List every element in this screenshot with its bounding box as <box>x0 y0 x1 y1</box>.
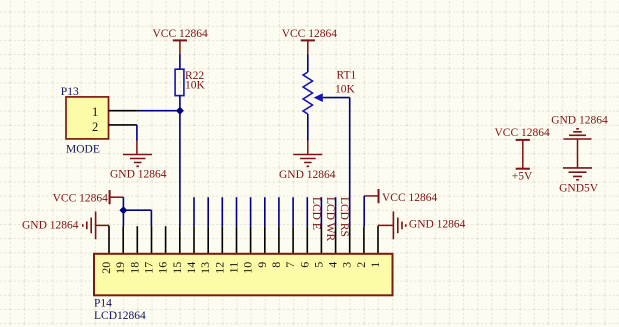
svg-text:8: 8 <box>269 262 283 268</box>
svg-text:GND5V: GND5V <box>559 183 599 195</box>
junction B <box>119 206 127 214</box>
svg-text:MODE: MODE <box>66 143 100 155</box>
wire VCC to RT1 <box>307 54 309 72</box>
svg-text:VCC 12864: VCC 12864 <box>282 28 338 40</box>
wire RT1 bottom <box>307 114 309 141</box>
wire down to pin2 P14 <box>363 196 365 226</box>
svg-text:10K: 10K <box>185 80 206 92</box>
svg-text:LCD12864: LCD12864 <box>94 310 146 322</box>
power bar +5V (bottom) <box>516 168 530 170</box>
svg-text:P14: P14 <box>94 297 112 309</box>
wire down to pin3 P14 <box>349 98 351 227</box>
svg-text:15: 15 <box>170 262 184 274</box>
resistor R22 body <box>175 69 184 95</box>
ground symbol rotated (right P14) <box>393 212 405 240</box>
wire junction B right <box>123 209 151 211</box>
power bar VCC (+5V tie top) <box>516 139 530 141</box>
svg-text:10: 10 <box>241 262 255 274</box>
power bar VCC (right P14) <box>378 189 380 203</box>
svg-text:3: 3 <box>340 262 354 268</box>
wire P13 pin1 to junction <box>137 110 180 112</box>
svg-text:1: 1 <box>92 105 98 119</box>
wire junction down to pin15 P14 <box>179 111 181 227</box>
wire between ground ports <box>577 139 579 168</box>
wire between VCC and +5V ports <box>522 140 524 169</box>
svg-text:4: 4 <box>326 262 340 268</box>
svg-text:VCC 12864: VCC 12864 <box>53 192 109 204</box>
svg-text:2: 2 <box>354 262 368 268</box>
svg-text:18: 18 <box>127 262 141 274</box>
svg-text:GND 12864: GND 12864 <box>551 114 608 126</box>
svg-text:P13: P13 <box>61 86 79 98</box>
svg-text:19: 19 <box>113 262 127 274</box>
svg-text:GND 12864: GND 12864 <box>22 220 79 232</box>
svg-text:LCD WR: LCD WR <box>324 197 336 242</box>
svg-text:GND 12864: GND 12864 <box>279 169 336 181</box>
wire R22 to junction <box>179 96 181 111</box>
pin 2 P13 <box>109 124 137 126</box>
svg-text:GND 12864: GND 12864 <box>110 169 167 181</box>
wire down to pin17 <box>150 210 152 226</box>
svg-text:16: 16 <box>156 262 170 274</box>
svg-text:RT1: RT1 <box>337 69 357 81</box>
ground wire to pin1 <box>378 224 393 226</box>
wiper arrow RT1 <box>314 93 323 102</box>
svg-text:7: 7 <box>283 262 297 268</box>
svg-text:6: 6 <box>297 262 311 268</box>
stub wires above pins 14-4 <box>194 197 336 226</box>
svg-text:11: 11 <box>227 262 241 274</box>
ground symbol (P13) <box>123 155 152 167</box>
svg-text:17: 17 <box>142 262 156 274</box>
svg-text:14: 14 <box>184 262 198 274</box>
ground stub (RT1) <box>307 141 309 155</box>
svg-text:20: 20 <box>99 262 113 274</box>
ground symbol (RT1) <box>293 155 322 167</box>
power stub (left VCC) <box>110 196 124 198</box>
wire wiper to right <box>323 97 350 99</box>
wire VCC down to junction B <box>122 197 124 210</box>
ground symbol (GND5V) <box>563 168 592 180</box>
wire VCC to R22 <box>179 54 181 69</box>
power bar VCC (above R22) <box>173 39 187 41</box>
svg-text:2: 2 <box>92 120 98 134</box>
ground wire to pin20 <box>96 224 109 226</box>
svg-text:1: 1 <box>368 262 382 268</box>
power stub (right VCC) <box>364 195 378 197</box>
ground symbol rotated (left P14) <box>83 212 96 240</box>
power stub (VCC to wire) <box>179 40 181 54</box>
potentiometer RT1 body (zigzag) <box>303 72 312 114</box>
svg-text:VCC 12864: VCC 12864 <box>382 192 438 204</box>
connector P14 body <box>94 254 393 295</box>
svg-text:LCD RS: LCD RS <box>338 197 350 237</box>
power bar VCC (left P14) <box>109 190 111 204</box>
svg-text:10K: 10K <box>335 83 356 95</box>
svg-text:LCD E: LCD E <box>310 197 322 230</box>
svg-text:VCC 12864: VCC 12864 <box>153 28 209 40</box>
power stub (RT1) <box>307 40 309 54</box>
ground stub (P13) <box>136 141 138 155</box>
connector P13 body <box>66 97 109 139</box>
svg-text:5: 5 <box>311 262 325 268</box>
svg-text:VCC 12864: VCC 12864 <box>495 127 551 139</box>
svg-text:12: 12 <box>212 262 226 274</box>
wire P13 pin2 down <box>136 125 138 141</box>
wire junction B to pin19 <box>122 210 124 226</box>
power bar VCC (above RT1) <box>301 39 315 41</box>
ground symbol inverted (GND 12864 tie) <box>564 129 592 139</box>
junction A (R22/P13/pin15) <box>176 107 184 115</box>
svg-text:GND 12864: GND 12864 <box>409 219 466 231</box>
pins 20..1 of P14 <box>109 226 378 254</box>
svg-text:13: 13 <box>198 262 212 274</box>
pin 1 P13 <box>109 110 137 112</box>
svg-text:+5V: +5V <box>512 170 533 182</box>
svg-text:9: 9 <box>255 262 269 268</box>
